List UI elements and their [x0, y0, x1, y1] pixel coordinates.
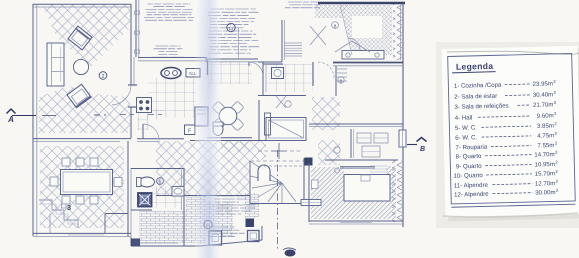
- svg-text:8: 8: [334, 23, 337, 29]
- svg-text:2- Sala de estar: 2- Sala de estar: [454, 93, 497, 101]
- svg-text:4- Hall: 4- Hall: [455, 114, 473, 121]
- svg-text:21.70m: 21.70m: [533, 101, 553, 108]
- svg-text:30.00m: 30.00m: [535, 189, 555, 196]
- svg-text:15.70m: 15.70m: [535, 170, 555, 177]
- svg-text:3- Sala de refeições: 3- Sala de refeições: [454, 103, 508, 111]
- svg-text:12- Alpendre: 12- Alpendre: [454, 191, 489, 199]
- svg-text:6- W. C.: 6- W. C.: [455, 134, 477, 142]
- svg-text:A: A: [7, 115, 14, 124]
- svg-text:3.85m: 3.85m: [537, 123, 554, 130]
- svg-text:9.60m: 9.60m: [537, 112, 554, 119]
- svg-text:9- Quarto: 9- Quarto: [456, 163, 483, 171]
- svg-text:14.70m: 14.70m: [534, 151, 554, 158]
- svg-text:Legenda: Legenda: [456, 61, 494, 72]
- svg-text:9: 9: [340, 78, 343, 84]
- svg-text:12.70m: 12.70m: [535, 180, 555, 187]
- svg-text:F: F: [188, 128, 191, 134]
- svg-text:B: B: [420, 146, 425, 153]
- svg-text:23.95m: 23.95m: [532, 80, 552, 87]
- svg-text:7- Rouparia: 7- Rouparia: [455, 144, 488, 152]
- svg-text:4.75m: 4.75m: [537, 132, 554, 139]
- svg-text:6: 6: [159, 179, 162, 185]
- svg-text:30.40m: 30.40m: [533, 91, 553, 98]
- svg-text:12: 12: [229, 26, 234, 31]
- svg-text:7.55m: 7.55m: [537, 142, 554, 149]
- svg-text:5- W. C.: 5- W. C.: [455, 124, 477, 132]
- svg-text:10- Quarto: 10- Quarto: [454, 172, 484, 180]
- svg-text:11- Alpendre: 11- Alpendre: [454, 182, 489, 190]
- svg-text:8- Quarto: 8- Quarto: [456, 153, 483, 161]
- svg-text:2: 2: [102, 74, 105, 80]
- svg-text:1- Cozinha /Copa: 1- Cozinha /Copa: [454, 82, 502, 90]
- svg-text:10.95m: 10.95m: [534, 161, 554, 168]
